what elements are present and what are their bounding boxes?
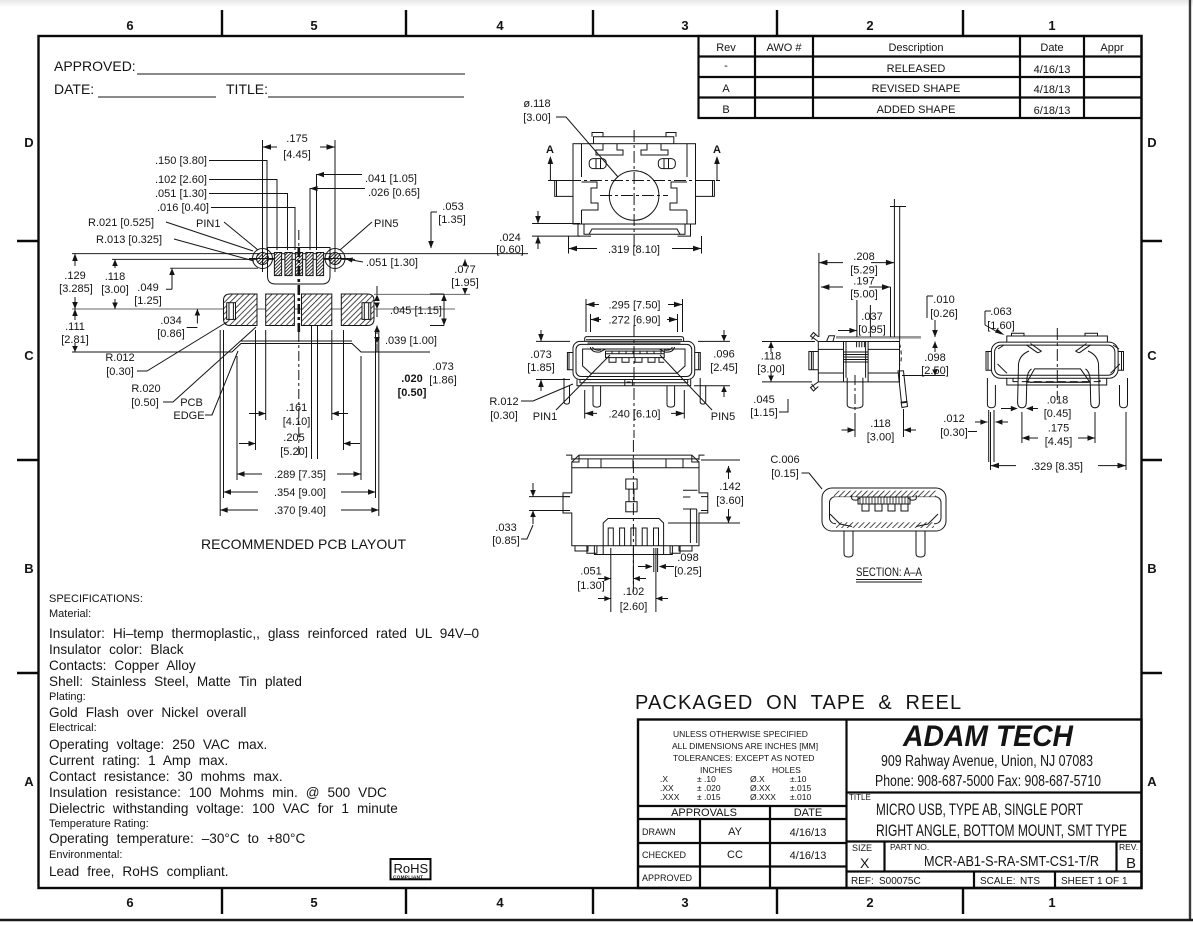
svg-text:.319 [8.10]: .319 [8.10] xyxy=(608,244,660,256)
svg-text:B: B xyxy=(1147,561,1156,576)
svg-text:TOLERANCES: EXCEPT AS NOTED: TOLERANCES: EXCEPT AS NOTED xyxy=(673,753,814,763)
mounting pad right xyxy=(341,294,374,326)
sheet outer border right xyxy=(1189,0,1191,921)
svg-text:Electrical:: Electrical: xyxy=(49,722,97,734)
svg-text:DATE: DATE xyxy=(794,807,823,819)
svg-text:C: C xyxy=(1147,348,1157,363)
svg-text:.045 [1.15]: .045 [1.15] xyxy=(390,305,442,317)
svg-text:[2.50]: [2.50] xyxy=(921,365,949,377)
svg-text:.118: .118 xyxy=(761,351,782,363)
svg-text:.063: .063 xyxy=(990,306,1011,318)
svg-text:Contacts: Copper Alloy: Contacts: Copper Alloy xyxy=(49,658,196,673)
svg-text:6/18/13: 6/18/13 xyxy=(1034,105,1071,117)
section shell outer xyxy=(822,488,946,531)
svg-text:1: 1 xyxy=(1048,895,1055,910)
svg-text:[1.30]: [1.30] xyxy=(577,580,605,592)
dim ladder .150 [3.80] xyxy=(155,155,267,250)
dim .073 [1.86] xyxy=(429,294,457,387)
svg-text:6: 6 xyxy=(126,18,133,33)
svg-text:Lead free, RoHS compliant.: Lead free, RoHS compliant. xyxy=(49,864,229,879)
svg-text:PIN1: PIN1 xyxy=(533,411,557,423)
svg-text:.161: .161 xyxy=(286,402,307,414)
svg-text:X: X xyxy=(860,855,870,871)
dim ladder .026 [0.65] xyxy=(310,186,420,250)
svg-text:.077: .077 xyxy=(454,264,475,276)
svg-text:UNLESS OTHERWISE SPECIFIED: UNLESS OTHERWISE SPECIFIED xyxy=(673,729,808,739)
dim .033 [0.85] xyxy=(492,483,570,547)
view: side view xyxy=(809,333,921,419)
svg-text:5: 5 xyxy=(310,895,317,910)
dim .118 [3.00] bottom leg xyxy=(842,409,917,444)
center dashed line xyxy=(298,230,300,247)
side wings xyxy=(555,181,715,197)
dim .053 [1.35] pcb xyxy=(428,201,466,249)
svg-text:.354 [9.00]: .354 [9.00] xyxy=(274,487,326,499)
long extension line second xyxy=(112,258,355,260)
rear shell outer xyxy=(991,342,1118,378)
dim .240 [6.10] xyxy=(585,390,685,421)
svg-text:ø.118: ø.118 xyxy=(523,98,550,110)
contact tail block xyxy=(603,519,663,546)
section arrow A left xyxy=(546,144,554,180)
label PIN1 xyxy=(533,355,610,423)
section hatched walls xyxy=(834,491,936,497)
contact stack xyxy=(844,342,869,378)
svg-text:R.013 [0.325]: R.013 [0.325] xyxy=(96,234,162,246)
dim .370 [9.40] xyxy=(220,330,379,517)
svg-text:A: A xyxy=(722,83,730,95)
shell outer xyxy=(573,341,695,379)
svg-text:[4.45]: [4.45] xyxy=(1045,436,1073,448)
dim .096 [2.45] xyxy=(694,330,738,397)
svg-text:.024: .024 xyxy=(499,232,520,244)
svg-text:PIN5: PIN5 xyxy=(374,218,398,230)
svg-text:.034: .034 xyxy=(160,315,181,327)
svg-text:Insulator: Hi–temp thermoplast: Insulator: Hi–temp thermoplastic,, glass… xyxy=(49,626,480,641)
svg-text:[0.86]: [0.86] xyxy=(157,328,185,340)
svg-text:.098: .098 xyxy=(677,552,698,564)
centerline front view xyxy=(633,325,635,438)
dim .319 [8.10] xyxy=(569,236,702,256)
svg-text:RECOMMENDED PCB LAYOUT: RECOMMENDED PCB LAYOUT xyxy=(201,536,406,552)
svg-text:R.020: R.020 xyxy=(131,383,160,395)
dim .045 [1.15] pcb xyxy=(374,286,442,317)
dim .077 [1.95] xyxy=(451,259,479,294)
label PIN1 pcb xyxy=(196,218,258,250)
svg-text:APPROVED:: APPROVED: xyxy=(54,58,136,74)
pcb edge profile xyxy=(72,344,430,353)
svg-text:.051: .051 xyxy=(580,566,601,578)
view: bottom view xyxy=(563,440,708,585)
section arrow A right xyxy=(713,144,721,180)
dim ladder .041 [1.05] xyxy=(317,172,418,250)
svg-text:[1.60]: [1.60] xyxy=(987,320,1015,332)
dim .295 [7.50] xyxy=(586,299,683,332)
side body outline xyxy=(818,342,899,382)
svg-text:Plating:: Plating: xyxy=(49,691,86,703)
centerline bottom view xyxy=(632,440,634,585)
mount circle pin1 xyxy=(249,245,276,272)
dim .205 [5.20] xyxy=(239,330,360,458)
centerline vertical xyxy=(633,130,635,247)
dim .175 [4.45] rear xyxy=(1022,412,1095,448)
svg-text:Ø.XXX: Ø.XXX xyxy=(750,792,776,802)
svg-text:Shell: Stainless Steel, Matte: Shell: Stainless Steel, Matte Tin plated xyxy=(49,674,302,689)
svg-text:5: 5 xyxy=(310,18,317,33)
svg-text:PACKAGED ON TAPE & REEL: PACKAGED ON TAPE & REEL xyxy=(635,692,962,714)
SPECIFICATIONS BLOCK xyxy=(49,593,480,879)
svg-text:CC: CC xyxy=(727,849,743,861)
svg-text:REF:: REF: xyxy=(851,876,874,887)
svg-text:[1.35]: [1.35] xyxy=(438,214,466,226)
svg-text:.205: .205 xyxy=(283,432,304,444)
svg-text:Rev: Rev xyxy=(716,42,736,54)
label R.020 [0.50] xyxy=(131,327,256,409)
rear side tabs xyxy=(986,352,991,371)
zone ticks top xyxy=(222,10,963,36)
svg-text:SPECIFICATIONS:: SPECIFICATIONS: xyxy=(49,593,143,605)
svg-text:SECTION: A–A: SECTION: A–A xyxy=(856,565,922,579)
svg-text:Dielectric withstanding voltag: Dielectric withstanding voltage: 100 VAC… xyxy=(49,801,398,816)
dim .018 [0.45] xyxy=(1001,395,1071,421)
dim .063 [1.60] xyxy=(985,306,1015,335)
inner legs and saddle xyxy=(1018,351,1032,408)
svg-text:[2.45]: [2.45] xyxy=(710,362,738,374)
svg-text:PIN5: PIN5 xyxy=(711,411,735,423)
svg-text:4: 4 xyxy=(496,895,504,910)
svg-text:REV.: REV. xyxy=(1119,842,1138,852)
sheet outer border bottom xyxy=(0,919,1193,921)
svg-text:B: B xyxy=(24,561,33,576)
svg-text:[4.10]: [4.10] xyxy=(283,416,311,428)
svg-text:Temperature Rating:: Temperature Rating: xyxy=(49,818,149,830)
top-left tab xyxy=(811,333,819,342)
zone ticks bottom xyxy=(222,888,963,914)
dim .010 [0.26] xyxy=(927,294,958,337)
dim ladder .051 [1.30] xyxy=(155,188,288,250)
dim .129 [3.285] xyxy=(59,254,93,309)
svg-text:.018: .018 xyxy=(1047,395,1068,407)
dim .142 [3.60] xyxy=(668,460,744,523)
svg-text:SHEET 1 OF 1: SHEET 1 OF 1 xyxy=(1061,876,1128,887)
view: section A-A xyxy=(822,488,946,557)
svg-text:[1.95]: [1.95] xyxy=(451,277,479,289)
svg-text:-: - xyxy=(724,60,728,72)
centerline rear xyxy=(1056,328,1058,400)
svg-text:[4.45]: [4.45] xyxy=(283,149,311,161)
svg-text:ALL DIMENSIONS ARE INCHES [MM]: ALL DIMENSIONS ARE INCHES [MM] xyxy=(672,741,818,751)
extension line third xyxy=(170,267,258,269)
rear outer legs xyxy=(987,378,995,408)
svg-text:.051 [1.30]: .051 [1.30] xyxy=(155,188,207,200)
svg-text:.XXX: .XXX xyxy=(660,792,680,802)
mounting pad mid-right xyxy=(302,294,332,326)
latch diagonals xyxy=(1026,344,1041,353)
view: top view of connector xyxy=(548,130,720,247)
dim ladder .102 [2.60] xyxy=(155,174,277,250)
svg-text:RIGHT ANGLE, BOTTOM MOUNT, SMT: RIGHT ANGLE, BOTTOM MOUNT, SMT TYPE xyxy=(876,821,1127,840)
svg-text:[0.26]: [0.26] xyxy=(930,308,958,320)
base plate xyxy=(577,380,691,386)
svg-text:Operating temperature: –30°C t: Operating temperature: –30°C to +80°C xyxy=(49,831,305,846)
svg-text:Insulation resistance: 100 Moh: Insulation resistance: 100 Mohms min. @ … xyxy=(49,785,387,800)
dim .161 [4.10] xyxy=(249,330,348,428)
dim .175 [4.45] pcb xyxy=(263,133,336,248)
section A-A line xyxy=(548,180,720,182)
svg-text:.118: .118 xyxy=(870,418,891,430)
svg-text:ADAM TECH: ADAM TECH xyxy=(902,720,1074,753)
screw slots xyxy=(589,159,675,169)
dim .020 [0.50] edge xyxy=(398,373,427,399)
svg-text:PCB: PCB xyxy=(180,397,203,409)
svg-text:SCALE:: SCALE: xyxy=(980,876,1016,887)
dim .051 [1.30] pcb mid xyxy=(345,257,418,269)
svg-text:± .015: ± .015 xyxy=(697,792,721,802)
view: recommended PCB layout xyxy=(72,230,528,459)
svg-text:.012: .012 xyxy=(943,413,964,425)
svg-text:Gold Flash over Nickel overall: Gold Flash over Nickel overall xyxy=(49,705,246,720)
long extension line top xyxy=(72,253,528,255)
label R.013 [0.325] xyxy=(96,234,254,261)
svg-text:Insulator color: Black: Insulator color: Black xyxy=(49,642,184,657)
view: rear view xyxy=(986,328,1128,408)
pads center line xyxy=(72,308,455,310)
svg-text:SIZE: SIZE xyxy=(852,843,872,853)
svg-text:.175: .175 xyxy=(1048,423,1069,435)
label PCB EDGE xyxy=(173,351,238,422)
section contact teeth xyxy=(852,495,917,511)
svg-text:.096: .096 xyxy=(713,349,734,361)
svg-text:.039 [1.00]: .039 [1.00] xyxy=(385,335,437,347)
dim .118 [3.00] pcb xyxy=(101,259,129,309)
svg-text:[5.20]: [5.20] xyxy=(280,446,308,458)
long verticals below pads xyxy=(312,326,318,459)
svg-text:A: A xyxy=(1147,774,1157,789)
top corner clips xyxy=(572,455,699,462)
center leg side xyxy=(847,378,863,408)
svg-text:Appr: Appr xyxy=(1100,42,1124,54)
svg-text:.370 [9.40]: .370 [9.40] xyxy=(274,505,326,517)
svg-text:6: 6 xyxy=(126,895,133,910)
svg-text:APPROVALS: APPROVALS xyxy=(671,807,737,819)
view: front view of receptacle xyxy=(564,325,706,438)
svg-text:.033: .033 xyxy=(495,522,516,534)
section inner chamfers xyxy=(830,514,938,527)
label R.012 [0.30] front xyxy=(489,384,573,422)
svg-text:TITLE:: TITLE: xyxy=(226,81,268,97)
bottom feet xyxy=(575,546,692,551)
svg-text:3: 3 xyxy=(681,18,688,33)
dim .208 [5.29] xyxy=(819,199,906,341)
dim .111 [2.81] xyxy=(61,309,89,352)
svg-text:[1.85]: [1.85] xyxy=(527,362,555,374)
right arm xyxy=(683,509,697,543)
svg-text:B: B xyxy=(722,104,729,116)
legs bottom corners xyxy=(582,210,688,224)
svg-text:S00075C: S00075C xyxy=(879,876,921,887)
svg-text:.053: .053 xyxy=(442,201,463,213)
svg-text:[1.15]: [1.15] xyxy=(750,407,778,419)
section legs xyxy=(844,531,853,557)
svg-text:.197: .197 xyxy=(853,276,874,288)
center dumbbell xyxy=(626,479,637,512)
svg-text:A: A xyxy=(24,774,34,789)
svg-text:PIN1: PIN1 xyxy=(196,218,220,230)
left bracket box xyxy=(809,352,818,370)
dim .045 [1.15] side xyxy=(750,394,788,419)
svg-text:[0.30]: [0.30] xyxy=(490,410,518,422)
svg-text:Contact resistance: 30 mohms m: Contact resistance: 30 mohms max. xyxy=(49,769,283,784)
svg-text:EDGE: EDGE xyxy=(173,410,204,422)
dim .197 [5.00] xyxy=(821,276,891,338)
svg-text:REVISED SHAPE: REVISED SHAPE xyxy=(872,83,961,95)
label PIN5 xyxy=(660,355,735,423)
svg-text:.208: .208 xyxy=(853,251,874,263)
svg-text:R.012: R.012 xyxy=(489,396,518,408)
inner profile right xyxy=(670,182,687,210)
dim .012 [0.30] rear leg xyxy=(975,410,1008,462)
svg-text:±.010: ±.010 xyxy=(790,792,811,802)
back face curl xyxy=(900,344,902,365)
svg-text:Description: Description xyxy=(888,42,943,54)
svg-text:Current rating: 1 Amp max.: Current rating: 1 Amp max. xyxy=(49,753,228,768)
svg-text:R.021 [0.525]: R.021 [0.525] xyxy=(88,217,154,229)
svg-text:2: 2 xyxy=(866,18,873,33)
svg-text:MICRO USB, TYPE AB, SINGLE POR: MICRO USB, TYPE AB, SINGLE PORT xyxy=(876,800,1083,819)
svg-text:3: 3 xyxy=(681,895,688,910)
svg-text:4/16/13: 4/16/13 xyxy=(790,827,827,839)
svg-text:.049: .049 xyxy=(137,282,158,294)
svg-text:CHECKED: CHECKED xyxy=(642,850,687,860)
svg-text:.010: .010 xyxy=(933,294,954,306)
svg-text:[0.25]: [0.25] xyxy=(674,566,702,578)
svg-text:B: B xyxy=(1126,855,1136,872)
svg-text:[0.30]: [0.30] xyxy=(106,366,134,378)
svg-text:1: 1 xyxy=(1048,18,1055,33)
dim .098 [2.50] xyxy=(902,342,949,378)
side notch tabs xyxy=(563,497,570,511)
shell inner wall xyxy=(576,344,692,376)
svg-text:.098: .098 xyxy=(924,352,945,364)
svg-text:.102: .102 xyxy=(623,586,644,598)
svg-text:[3.00]: [3.00] xyxy=(867,432,895,444)
label R.021 [0.525] xyxy=(88,217,253,251)
inner chamfers xyxy=(998,364,1120,373)
latch hook left xyxy=(590,347,605,352)
vertical divider tol/adam xyxy=(845,720,847,889)
dim .034 [0.86] xyxy=(157,309,200,340)
dim .098 [0.25] xyxy=(638,548,702,578)
svg-text:.026 [0.65]: .026 [0.65] xyxy=(368,187,420,199)
dim .272 [6.90] xyxy=(591,314,678,332)
svg-text:[3.60]: [3.60] xyxy=(716,495,744,507)
svg-text:.045: .045 xyxy=(753,394,774,406)
svg-text:RELEASED: RELEASED xyxy=(887,63,946,75)
svg-text:DRAWN: DRAWN xyxy=(642,827,676,837)
svg-text:.289 [7.35]: .289 [7.35] xyxy=(274,469,326,481)
inner profile left xyxy=(582,182,599,210)
label C.006 [0.15] xyxy=(770,454,822,489)
dim .102 [2.60] xyxy=(598,548,668,613)
svg-text:AWO #: AWO # xyxy=(766,42,802,54)
bent tail xyxy=(898,371,907,403)
svg-text:Date: Date xyxy=(1040,42,1063,54)
center tab xyxy=(625,380,633,386)
svg-text:[1.86]: [1.86] xyxy=(429,375,457,387)
svg-text:2: 2 xyxy=(866,895,873,910)
svg-text:A: A xyxy=(546,144,554,156)
svg-text:NTS: NTS xyxy=(1020,876,1040,887)
bottom-left tab xyxy=(811,382,819,391)
svg-text:[3.00]: [3.00] xyxy=(757,364,785,376)
svg-text:.102 [2.60]: .102 [2.60] xyxy=(155,174,207,186)
contact block xyxy=(606,351,665,362)
svg-text:.051 [1.30]: .051 [1.30] xyxy=(366,257,418,269)
svg-text:4/16/13: 4/16/13 xyxy=(790,850,827,862)
svg-text:DATE:: DATE: xyxy=(54,81,94,97)
mounting pad mid-left xyxy=(266,294,295,326)
dim .289 [7.35] xyxy=(237,356,361,481)
RoHS logo xyxy=(391,859,431,881)
svg-text:.150 [3.80]: .150 [3.80] xyxy=(155,155,207,167)
bottom flange xyxy=(584,224,685,234)
svg-text:[5.00]: [5.00] xyxy=(850,289,878,301)
dim .354 [9.00] xyxy=(224,330,376,499)
label PIN5 pcb xyxy=(340,218,398,250)
svg-text:.175: .175 xyxy=(286,133,307,145)
svg-text:.111: .111 xyxy=(65,321,85,333)
zone ticks right xyxy=(1141,241,1162,673)
dim .118 [3.00] side xyxy=(757,342,815,382)
svg-text:[2.60]: [2.60] xyxy=(620,601,648,613)
svg-text:AY: AY xyxy=(728,826,743,838)
svg-text:[0.45]: [0.45] xyxy=(1044,408,1072,420)
latch hook right xyxy=(659,347,674,352)
svg-text:.073: .073 xyxy=(530,349,551,361)
svg-text:COMPLIANT: COMPLIANT xyxy=(393,875,423,881)
svg-text:[3.00]: [3.00] xyxy=(523,112,551,124)
dim .073 [1.85] xyxy=(527,330,570,391)
dim .024 [0.60] xyxy=(496,211,580,256)
svg-text:[1.25]: [1.25] xyxy=(134,295,162,307)
svg-text:C.006: C.006 xyxy=(770,454,799,466)
svg-text:Operating voltage: 250 VAC max: Operating voltage: 250 VAC max. xyxy=(49,737,267,752)
dim .039 [1.00] xyxy=(374,326,437,353)
svg-text:Phone: 908-687-5000 Fax: 908-6: Phone: 908-687-5000 Fax: 908-687-5710 xyxy=(875,773,1101,790)
svg-text:.041 [1.05]: .041 [1.05] xyxy=(365,173,417,185)
back band xyxy=(572,459,699,468)
svg-text:[0.15]: [0.15] xyxy=(771,468,799,480)
svg-text:4: 4 xyxy=(496,18,504,33)
svg-text:[0.50]: [0.50] xyxy=(131,397,159,409)
svg-text:APPROVED: APPROVED xyxy=(642,873,693,883)
dim .049 [1.25] xyxy=(134,268,175,307)
5 contact pads hatched xyxy=(274,253,323,276)
svg-text:TITLE: TITLE xyxy=(849,793,871,802)
dim .012 [0.30] tail xyxy=(940,413,977,439)
legs xyxy=(564,378,706,407)
svg-text:R.012: R.012 xyxy=(105,352,134,364)
svg-text:[0.85]: [0.85] xyxy=(492,535,520,547)
svg-text:MCR-AB1-S-RA-SMT-CS1-T/R: MCR-AB1-S-RA-SMT-CS1-T/R xyxy=(924,854,1099,870)
svg-text:[3.00]: [3.00] xyxy=(101,284,129,296)
bottom strip xyxy=(1007,378,1107,385)
label R.012 [0.30] pcb xyxy=(105,322,227,378)
TITLE BLOCK xyxy=(638,720,1142,889)
svg-text:.037: .037 xyxy=(861,311,882,323)
mounting hole circle xyxy=(609,171,659,221)
svg-text:C: C xyxy=(24,348,34,363)
